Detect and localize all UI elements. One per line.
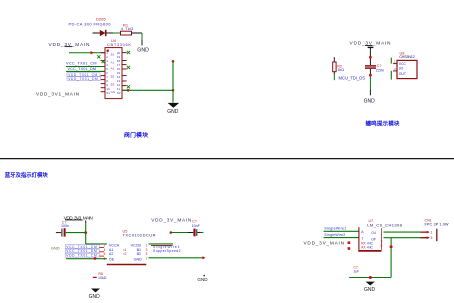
svg-text:RX +NC: RX +NC xyxy=(361,241,373,245)
svg-text:VCCA: VCCA xyxy=(109,244,120,248)
svg-text:VDD_3V_MAIN: VDD_3V_MAIN xyxy=(151,218,191,223)
svg-text:AX +NC: AX +NC xyxy=(361,246,373,250)
svg-text:CHS3N12: CHS3N12 xyxy=(399,55,415,59)
svg-text:220n: 220n xyxy=(376,68,384,72)
svg-text:0: 0 xyxy=(381,244,383,248)
svg-text:1kΩ: 1kΩ xyxy=(337,68,344,72)
svg-text:GND: GND xyxy=(134,257,143,261)
svg-text:4.7kΩ: 4.7kΩ xyxy=(121,26,134,31)
svg-text:C?: C? xyxy=(192,220,197,224)
svg-text:VCCB: VCCB xyxy=(131,244,142,248)
svg-text:2: 2 xyxy=(104,243,106,247)
svg-text:B3: B3 xyxy=(111,83,115,87)
svg-text:LM_CS_CH1308: LM_CS_CH1308 xyxy=(367,223,402,228)
svg-text:I/O: I/O xyxy=(399,66,404,70)
svg-text:GND: GND xyxy=(167,109,179,115)
svg-text:1: 1 xyxy=(146,243,148,247)
svg-text:阀门模块: 阀门模块 xyxy=(124,131,148,139)
svg-text:GND: GND xyxy=(364,98,376,104)
svg-text:CBT3306K: CBT3306K xyxy=(107,42,131,47)
svg-text:O4: O4 xyxy=(371,231,376,235)
svg-text:VCC_TX01_DM: VCC_TX01_DM xyxy=(68,67,97,71)
svg-text:5: 5 xyxy=(146,252,148,256)
svg-text:TXC0102DCUR: TXC0102DCUR xyxy=(123,232,156,237)
svg-text:B2: B2 xyxy=(111,75,115,79)
svg-text:<2: <2 xyxy=(123,252,127,256)
svg-text:B1: B1 xyxy=(111,53,115,57)
svg-text:GND: GND xyxy=(137,48,149,54)
svg-text:GND: GND xyxy=(364,287,376,293)
svg-text:SingleWire2: SingleWire2 xyxy=(324,233,345,237)
svg-text:C?: C? xyxy=(377,64,382,68)
svg-text:VDD_3V_MAIN: VDD_3V_MAIN xyxy=(304,241,345,246)
svg-text:OUT: OUT xyxy=(399,72,406,76)
svg-text:10kΩ: 10kΩ xyxy=(98,276,107,280)
svg-text:FPC 3P 1.0W: FPC 3P 1.0W xyxy=(425,222,449,226)
svg-text:A2: A2 xyxy=(109,252,114,256)
svg-text:1: 1 xyxy=(431,231,433,235)
svg-text:GN: GN xyxy=(111,90,116,94)
svg-text:A2: A2 xyxy=(111,67,115,71)
svg-text:VCC_TX01_CM: VCC_TX01_CM xyxy=(66,245,97,249)
svg-text:VDD_TX01_DM: VDD_TX01_DM xyxy=(68,77,98,81)
svg-text:GND: GND xyxy=(51,246,60,251)
svg-text:GND: GND xyxy=(89,294,101,300)
svg-text:蓝牙及指示灯模块: 蓝牙及指示灯模块 xyxy=(5,171,49,179)
svg-text:A1: A1 xyxy=(111,61,115,65)
svg-text:8: 8 xyxy=(104,257,106,261)
svg-text:SupperSpeed2: SupperSpeed2 xyxy=(153,249,181,253)
svg-text:SingleWire1: SingleWire1 xyxy=(324,226,346,230)
svg-text:1uF: 1uF xyxy=(353,270,359,274)
svg-text:OE: OE xyxy=(109,257,115,261)
svg-text:10nF: 10nF xyxy=(192,224,201,228)
svg-text:7: 7 xyxy=(146,257,148,261)
svg-text:VDD_TX01_CM: VDD_TX01_CM xyxy=(66,254,97,258)
svg-text:VDD_3V1_MAIN: VDD_3V1_MAIN xyxy=(36,92,79,97)
svg-text:100n: 100n xyxy=(61,224,69,228)
svg-text:蟪鸣提示模块: 蟪鸣提示模块 xyxy=(366,120,400,128)
svg-text:VCC_TX01_CM: VCC_TX01_CM xyxy=(66,61,97,65)
svg-text:PD-CA 300 FRG600: PD-CA 300 FRG600 xyxy=(69,21,112,26)
svg-text:S2: S2 xyxy=(117,91,121,95)
svg-text:B2: B2 xyxy=(137,252,142,256)
svg-text:6: 6 xyxy=(104,252,106,256)
svg-text:GND: GND xyxy=(197,277,208,282)
svg-text:VDD_3V3_MAIN: VDD_3V3_MAIN xyxy=(64,215,94,221)
svg-text:3: 3 xyxy=(431,236,433,240)
svg-text:MCU_TDI_DS: MCU_TDI_DS xyxy=(339,76,366,81)
svg-text:T: T xyxy=(361,237,363,241)
svg-text:3: 3 xyxy=(381,239,383,243)
